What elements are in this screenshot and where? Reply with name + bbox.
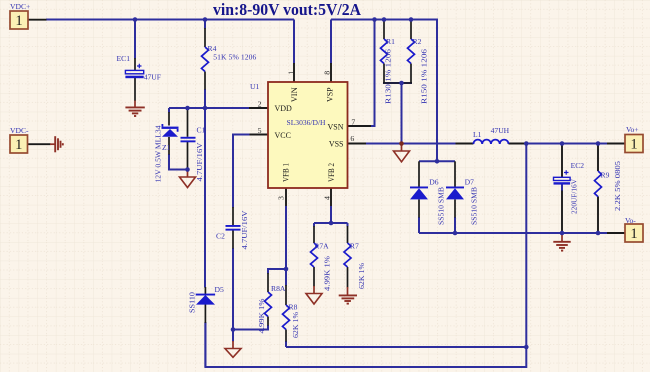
svg-text:R7A: R7A (314, 242, 329, 251)
junction R2-rail (409, 17, 414, 22)
wire VSN riser (367, 20, 375, 127)
pin VDC+ (28, 19, 47, 21)
resistor R2 (408, 39, 415, 64)
pin D7 top (454, 161, 456, 187)
resistor R8 (283, 305, 290, 329)
pin EC2 top (561, 144, 563, 178)
svg-text:R150 1% 1206: R150 1% 1206 (420, 49, 429, 104)
wire Z1 top (168, 108, 170, 113)
capacitor EC1 (125, 64, 143, 78)
junction EC1-rail (133, 17, 138, 22)
pin D5 bottom (204, 305, 206, 324)
svg-text:R7: R7 (350, 242, 359, 251)
junction C2-R8A (231, 327, 236, 332)
svg-text:2: 2 (258, 100, 262, 109)
capacitor C1 (181, 137, 196, 142)
resistor R4 (202, 47, 209, 72)
pin EC1 top (134, 58, 136, 71)
svg-text:VIN: VIN (290, 87, 299, 102)
svg-text:R130 1% 1206: R130 1% 1206 (384, 49, 393, 104)
capacitor C2 (226, 225, 241, 231)
wire Vout feedback drop (205, 144, 526, 368)
svg-text:Vo-: Vo- (625, 216, 636, 225)
svg-text:4.99K 1%: 4.99K 1% (323, 256, 332, 291)
wire VIN drop (293, 20, 295, 64)
svg-text:VDC-: VDC- (10, 126, 29, 135)
pin U1.3 (285, 188, 287, 207)
svg-text:220UF/16V: 220UF/16V (570, 178, 579, 214)
pin U1.6 (348, 143, 367, 145)
svg-text:EC2: EC2 (571, 161, 585, 170)
junction R4-rail (203, 17, 208, 22)
svg-text:2.2K 5% 0805: 2.2K 5% 0805 (613, 161, 622, 211)
labels vertical (154, 49, 623, 338)
svg-text:R8: R8 (289, 303, 298, 312)
junction R9-top (596, 141, 601, 146)
svg-text:SS110: SS110 (188, 292, 197, 313)
svg-text:VCC: VCC (275, 131, 291, 140)
pin VDC- (28, 143, 51, 145)
junction R1-rail (382, 17, 387, 22)
svg-text:U1: U1 (250, 82, 259, 91)
wire sense mid drop (401, 83, 403, 144)
ground EC1 earth (125, 101, 144, 117)
svg-text:47UH: 47UH (491, 126, 510, 135)
svg-text:1: 1 (630, 226, 637, 242)
pin D5 top (204, 287, 206, 294)
junction VFB2-node (329, 221, 334, 226)
inductor L1 (473, 140, 508, 144)
diode D6 (410, 187, 428, 200)
svg-text:4.7UF/16V: 4.7UF/16V (240, 210, 249, 250)
pin R8A bottom (267, 317, 269, 326)
wire FB2 node (330, 206, 332, 223)
wire VSS to L1 (366, 143, 456, 145)
pin R8A top (267, 273, 269, 292)
pin names U1 (275, 87, 344, 182)
svg-text:VSP: VSP (326, 87, 335, 102)
pin R1 bottom (383, 64, 385, 84)
svg-text:12V 0.5W MLL34: 12V 0.5W MLL34 (154, 125, 163, 182)
svg-text:1: 1 (630, 136, 637, 152)
pin R2 bottom (410, 64, 412, 84)
pin C1 bottom (187, 142, 189, 170)
junction feedback-bottom (524, 345, 529, 350)
svg-text:VDC+: VDC+ (10, 2, 30, 11)
pin Z1 bottom (168, 137, 170, 155)
junction VSN-rail (372, 17, 377, 22)
junction D7-bottom (453, 231, 458, 236)
wire D5 bottom (204, 323, 206, 368)
pin U1.5 (249, 134, 268, 136)
terminal Vo- (625, 224, 643, 242)
ground EC2 earth (553, 234, 570, 251)
pin R4 bottom (204, 72, 206, 90)
pin EC2 bottom (561, 191, 563, 234)
wire R8 lower (285, 341, 287, 347)
svg-text:VSS: VSS (329, 140, 344, 149)
svg-text:vin:8-90V vout:5V/2A: vin:8-90V vout:5V/2A (213, 0, 361, 19)
wire D5 branch (204, 108, 206, 288)
wire EC2 bottom (561, 185, 563, 192)
pin Z1 top (168, 112, 170, 126)
svg-text:VDD: VDD (275, 104, 293, 113)
pin U1.2 (249, 107, 268, 109)
wire FB1 node (285, 206, 287, 286)
junction R9-bottom (596, 231, 601, 236)
resistor R9 (595, 171, 602, 197)
junction EC2-top (560, 141, 565, 146)
ground R7 earth (339, 287, 357, 304)
pin Vo- (607, 232, 625, 234)
svg-text:3: 3 (277, 196, 286, 200)
wire VDD (169, 107, 250, 109)
pin R1 top (383, 20, 385, 40)
node sense-VSS junction (399, 141, 404, 146)
resistor R1 (381, 39, 388, 64)
resistor R7 (344, 243, 351, 267)
wire R7A stub (313, 223, 315, 227)
ground VDC- earth rotated (50, 136, 63, 152)
wire R1R2 bottom (383, 82, 412, 84)
wire R8A branch (268, 269, 286, 274)
pin Vo+ (607, 143, 625, 145)
svg-text:4.99K 1%: 4.99K 1% (257, 299, 266, 334)
svg-text:D6: D6 (429, 178, 438, 187)
svg-text:62K 1%: 62K 1% (291, 312, 300, 338)
svg-text:7: 7 (351, 118, 355, 127)
svg-text:8: 8 (323, 71, 332, 75)
pin U1.1 (293, 63, 295, 82)
wire R4 to VDD node (204, 89, 206, 108)
terminal VDC- (10, 135, 28, 153)
zener Z1 (162, 124, 179, 137)
wire D6 D7 loop top (419, 160, 455, 162)
pin D7 bottom (454, 199, 456, 217)
junction Vout-feedback (524, 141, 529, 146)
svg-text:L1: L1 (473, 130, 482, 139)
svg-text:R2: R2 (413, 37, 422, 46)
resistor R8A (265, 292, 272, 316)
ground sense triangle (394, 145, 410, 162)
svg-text:62K 1%: 62K 1% (357, 263, 366, 289)
chip U1 body (268, 82, 348, 188)
svg-text:4: 4 (323, 196, 332, 200)
pin U1.8 (330, 63, 332, 82)
junction D6D7-top (435, 159, 440, 164)
svg-text:C2: C2 (216, 232, 225, 241)
svg-text:R1: R1 (386, 37, 395, 46)
resistor R7A (311, 243, 318, 267)
terminal Vo+ (625, 135, 643, 153)
wire Vout bottom rail (419, 232, 608, 234)
svg-text:6: 6 (350, 134, 354, 143)
wire VSP riser (330, 20, 332, 64)
wire R7 stub (347, 223, 349, 227)
wire Z1 bottom corner (169, 154, 188, 170)
capacitor EC2 (554, 170, 571, 184)
wire Vout top (526, 143, 608, 145)
wire R8 bottom (286, 346, 526, 348)
svg-text:SS510 SMB: SS510 SMB (436, 187, 445, 225)
diode D5 (196, 294, 215, 305)
pin R9 top (597, 144, 599, 172)
pin R4 top (204, 28, 206, 47)
svg-text:D5: D5 (215, 285, 224, 294)
svg-text:R9: R9 (601, 171, 610, 180)
pin R7A top (313, 226, 315, 243)
pin U1.7 (348, 125, 372, 127)
pin L1.right (509, 143, 527, 145)
junction C1-VDD (185, 106, 190, 111)
pin C1 top (187, 108, 189, 137)
wire VDC+ rail (46, 19, 294, 21)
svg-text:D7: D7 (465, 178, 474, 187)
ground C2 triangle (225, 341, 241, 357)
junction C1-gnd (185, 167, 190, 172)
pin EC1 bottom (134, 78, 136, 101)
terminal VDC+ (10, 11, 28, 29)
ground R7A triangle (306, 286, 322, 304)
wire R8A bottom (233, 325, 268, 330)
node junctions (133, 17, 601, 349)
junction EC2-bottom (560, 231, 565, 236)
svg-text:47UF: 47UF (144, 73, 161, 82)
pin R8 bottom (285, 330, 287, 342)
junction R4-VDD (203, 106, 208, 111)
pin C2 bottom (232, 231, 234, 249)
svg-text:R8A: R8A (271, 284, 286, 293)
junction VFB1-node (284, 267, 289, 272)
wire R7A R7 top (314, 222, 348, 224)
wire EC1 drop (134, 20, 136, 59)
svg-text:1: 1 (287, 71, 296, 75)
svg-text:Vo+: Vo+ (626, 125, 639, 134)
svg-text:VFB 1: VFB 1 (282, 163, 291, 182)
pin R7 bottom (347, 267, 349, 288)
pin L1.left (456, 143, 474, 145)
pin C2 top (232, 207, 234, 225)
svg-text:C1: C1 (197, 126, 206, 135)
pin D6 top (418, 161, 420, 187)
svg-text:5: 5 (258, 126, 262, 135)
svg-text:4.7UF/16V: 4.7UF/16V (195, 142, 204, 182)
ground Z1 C1 triangle (180, 170, 196, 188)
pin R7A bottom (313, 267, 315, 287)
svg-text:VFB 2: VFB 2 (327, 163, 336, 182)
wire C2 lower (232, 248, 234, 342)
svg-text:EC1: EC1 (117, 54, 131, 63)
svg-text:1: 1 (15, 137, 22, 153)
svg-text:51K 5% 1206: 51K 5% 1206 (213, 53, 256, 62)
svg-text:Z1: Z1 (162, 143, 171, 152)
wire D6 lower (418, 217, 420, 233)
diode D7 (446, 187, 464, 200)
svg-text:SL3036/D/H: SL3036/D/H (287, 118, 326, 127)
pin R9 bottom (597, 197, 599, 234)
junction R1R2-bottom (399, 81, 404, 86)
svg-text:SS510 SMB: SS510 SMB (470, 187, 479, 225)
wire D7 lower (454, 217, 456, 233)
wire VCC (233, 135, 250, 208)
pin U1.4 (330, 188, 332, 207)
pin R8 top (285, 285, 287, 305)
pin numbers U1 (258, 71, 356, 200)
svg-text:1: 1 (15, 13, 22, 29)
svg-text:VSN: VSN (327, 123, 343, 132)
pin D6 bottom (418, 199, 420, 217)
wire R4 top (204, 20, 206, 29)
pin R2 top (410, 20, 412, 40)
pin R7 top (347, 226, 349, 243)
wire VSP rail (331, 20, 437, 162)
